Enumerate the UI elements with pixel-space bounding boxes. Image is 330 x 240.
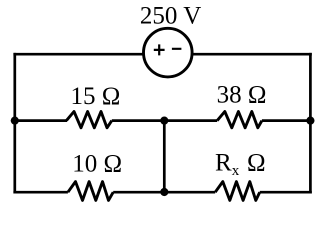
junction node C (right middle)	[306, 117, 314, 125]
wire: bottom center segment	[113, 191, 215, 194]
junction node B (center middle)	[160, 117, 168, 125]
wire: middle row right segment	[262, 119, 311, 122]
svg-text:Rx Ω: Rx Ω	[215, 149, 266, 179]
wire: right side	[309, 53, 312, 194]
wire: left side	[13, 53, 16, 194]
resistor R4 Rx zigzag	[215, 182, 260, 201]
junction node A (left middle)	[11, 117, 19, 125]
svg-text:15 Ω: 15 Ω	[70, 83, 120, 110]
junction node D (bottom center)	[160, 188, 168, 196]
wire: bottom left segment	[13, 191, 68, 194]
wire: middle row left segment	[15, 119, 67, 122]
wire: middle row center segment	[112, 119, 217, 122]
voltage source VS1 250 V	[144, 28, 193, 77]
resistor R3 10 ohm zigzag	[68, 182, 113, 201]
resistor R2 38 ohm zigzag	[217, 112, 262, 128]
wire: bottom right segment	[260, 191, 312, 194]
svg-text:250 V: 250 V	[140, 2, 201, 29]
svg-text:10 Ω: 10 Ω	[72, 151, 122, 178]
resistor R1 15 ohm zigzag	[66, 112, 111, 128]
wire: top side	[13, 53, 311, 56]
wire: center vertical	[163, 121, 166, 193]
svg-text:38 Ω: 38 Ω	[217, 81, 267, 108]
